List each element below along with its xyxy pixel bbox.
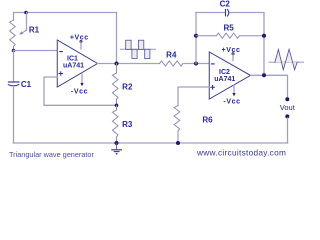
node R5 left tap [194,34,198,38]
power -Vcc IC1 [81,74,83,84]
resistor R1 [10,20,16,51]
svg-text:R4: R4 [166,50,177,59]
node R3 ground junction [115,141,119,145]
wire C1 bottom to ground rail [13,86,15,143]
power -Vcc IC2 [233,85,235,93]
node IC2 output junction [262,73,266,77]
svg-text:-Vcc: -Vcc [71,88,88,95]
resistor R6 [174,106,180,144]
svg-text:C2: C2 [220,0,231,8]
capacitor C1 [9,81,20,83]
svg-text:+Vcc: +Vcc [70,34,89,41]
wire non-inverting input IC1 loop [44,77,117,105]
resistor R4 [160,61,184,66]
svg-text:+Vcc: +Vcc [222,47,241,54]
resistor R5 [196,33,264,38]
wire R4 to IC2 inverting input [183,63,209,65]
ground [116,143,118,150]
pin plus IC1 [59,72,63,76]
wire inverting input IC1 [14,50,58,52]
capacitor C2 [225,10,227,16]
wire R1 wiper stem [26,13,28,31]
svg-text:Triangular wave generator: Triangular wave generator [9,150,94,159]
wiper arrow of R1 [22,30,27,33]
svg-text:Vout: Vout [280,103,296,112]
square wave symbol [120,48,155,50]
svg-text:uA741: uA741 [214,76,235,83]
wire non-inverting input IC2 [178,87,209,106]
svg-text:C1: C1 [21,80,32,89]
svg-text:R6: R6 [202,116,213,125]
node Vout lower terminal [285,114,289,118]
node IC2 inverting node [194,62,198,66]
wire IC1 output [98,63,160,65]
node Vout upper terminal [285,97,289,101]
svg-text:R1: R1 [29,26,40,35]
node IC1 output junction [115,62,119,66]
op-amp U2 IC2 uA741 triangle [209,52,250,99]
pin plus IC2 [211,86,215,90]
svg-text:www.circuitstoday.com: www.circuitstoday.com [196,148,286,158]
wire top rail from R1 top to IC1 output feedback [14,13,117,64]
wire C2 top branch [196,13,264,76]
node top rail dot [24,11,28,15]
svg-text:IC2: IC2 [219,69,230,76]
node R5 right tap [262,34,266,38]
wire inverting node vertical riser [195,13,197,64]
wire bottom ground rail [14,142,288,144]
op-amp U1 IC1 uA741 triangle [57,40,97,87]
resistor R2 [112,64,118,106]
svg-text:uA741: uA741 [63,62,84,69]
svg-text:-Vcc: -Vcc [223,98,240,105]
wire IC2 output [251,75,288,98]
wire R1 node down to C1 [13,51,15,82]
wire Vout lower to ground rail [287,118,289,143]
node R6 ground junction [176,141,180,145]
resistor R3 [112,105,118,143]
pin minus IC2 [212,63,215,65]
svg-text:R3: R3 [122,120,133,129]
pin minus IC1 [60,51,63,53]
node R1 bottom junction [12,49,16,53]
svg-text:R5: R5 [223,23,234,32]
node R2 R3 junction [115,104,119,108]
triangular wave symbol [269,61,304,63]
svg-text:R2: R2 [122,83,133,92]
